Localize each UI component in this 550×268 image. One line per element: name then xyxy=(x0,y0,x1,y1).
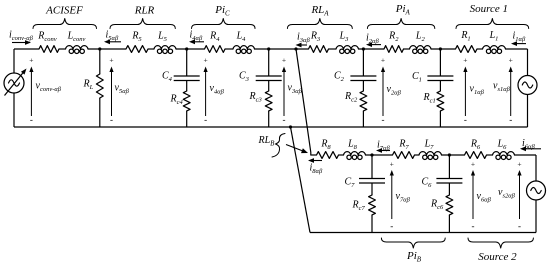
svg-text:i5αβ: i5αβ xyxy=(106,30,119,42)
svg-text:PiA: PiA xyxy=(395,3,411,16)
svg-text:R6: R6 xyxy=(470,139,481,151)
svg-text:C3: C3 xyxy=(239,71,250,83)
svg-text:PiC: PiC xyxy=(214,4,230,17)
svg-text:i8αβ: i8αβ xyxy=(310,163,323,175)
svg-text:C2: C2 xyxy=(334,71,345,83)
svg-text:Source 1: Source 1 xyxy=(470,3,508,15)
svg-text:R1: R1 xyxy=(460,30,470,42)
svg-text:-: - xyxy=(204,115,207,125)
svg-text:-: - xyxy=(283,115,286,125)
svg-text:i4αβ: i4αβ xyxy=(190,30,203,42)
svg-text:i7αβ: i7αβ xyxy=(377,140,390,152)
svg-text:L3: L3 xyxy=(339,31,350,43)
svg-text:i2αβ: i2αβ xyxy=(366,33,379,45)
svg-text:-: - xyxy=(30,115,33,125)
svg-text:R7: R7 xyxy=(398,139,409,151)
svg-text:C1: C1 xyxy=(412,71,422,83)
svg-text:-: - xyxy=(518,221,521,231)
svg-text:RLA: RLA xyxy=(310,4,329,17)
svg-text:iconv-αβ: iconv-αβ xyxy=(9,30,34,42)
svg-text:-: - xyxy=(464,115,467,125)
svg-text:-: - xyxy=(509,115,512,125)
svg-text:+: + xyxy=(381,56,385,65)
svg-text:-: - xyxy=(472,221,475,231)
svg-text:RLB: RLB xyxy=(258,135,276,147)
svg-text:C7: C7 xyxy=(345,177,356,189)
svg-text:+: + xyxy=(517,160,521,169)
svg-text:C6: C6 xyxy=(422,177,433,189)
svg-text:L6: L6 xyxy=(497,139,508,151)
svg-text:R2: R2 xyxy=(388,31,399,43)
svg-text:R8: R8 xyxy=(320,139,331,151)
svg-text:Rc7: Rc7 xyxy=(352,200,366,212)
svg-text:C4: C4 xyxy=(162,71,173,83)
svg-text:vconv-αβ: vconv-αβ xyxy=(36,81,62,93)
svg-text:PiB: PiB xyxy=(406,250,422,263)
svg-text:L7: L7 xyxy=(424,139,435,151)
svg-text:v3αβ: v3αβ xyxy=(288,83,303,95)
svg-text:v6αβ: v6αβ xyxy=(477,191,492,203)
svg-text:i6αβ: i6αβ xyxy=(522,138,535,150)
svg-text:-: - xyxy=(390,221,393,231)
svg-text:L4: L4 xyxy=(236,31,247,43)
svg-text:+: + xyxy=(282,56,286,65)
svg-text:+: + xyxy=(390,160,394,169)
svg-text:-: - xyxy=(110,115,113,125)
svg-text:+: + xyxy=(109,56,113,65)
svg-text:L5: L5 xyxy=(157,31,168,43)
svg-text:Rc2: Rc2 xyxy=(344,91,358,103)
svg-text:vs1αβ: vs1αβ xyxy=(493,81,511,93)
svg-text:Lconv: Lconv xyxy=(67,31,86,43)
svg-text:+: + xyxy=(203,56,207,65)
svg-text:v5αβ: v5αβ xyxy=(115,83,130,95)
svg-text:+: + xyxy=(29,56,33,65)
svg-text:v1αβ: v1αβ xyxy=(470,84,485,96)
svg-text:+: + xyxy=(463,56,467,65)
svg-text:Rc4: Rc4 xyxy=(170,94,184,106)
svg-text:i3αβ: i3αβ xyxy=(297,32,310,44)
svg-text:Source 2: Source 2 xyxy=(478,251,517,263)
svg-text:RL: RL xyxy=(83,79,94,91)
svg-text:RLR: RLR xyxy=(134,5,155,17)
svg-text:Rc1: Rc1 xyxy=(423,92,436,104)
svg-text:R4: R4 xyxy=(209,31,220,43)
svg-text:v2αβ: v2αβ xyxy=(387,84,402,96)
svg-text:R5: R5 xyxy=(131,31,142,43)
svg-text:v7αβ: v7αβ xyxy=(396,191,411,203)
svg-text:-: - xyxy=(382,115,385,125)
svg-text:Rc6: Rc6 xyxy=(430,199,444,211)
svg-text:ACISEF: ACISEF xyxy=(45,5,83,17)
svg-text:i1αβ: i1αβ xyxy=(513,31,526,43)
svg-text:L2: L2 xyxy=(415,31,426,43)
svg-text:Rconv: Rconv xyxy=(37,31,56,43)
svg-text:Rc3: Rc3 xyxy=(249,91,263,103)
svg-text:R3: R3 xyxy=(310,31,321,43)
svg-text:L1: L1 xyxy=(489,30,499,42)
svg-text:vs2αβ: vs2αβ xyxy=(498,187,516,199)
svg-text:+: + xyxy=(509,56,513,65)
svg-text:+: + xyxy=(471,160,475,169)
svg-text:L8: L8 xyxy=(347,139,358,151)
svg-text:v4αβ: v4αβ xyxy=(210,83,225,95)
